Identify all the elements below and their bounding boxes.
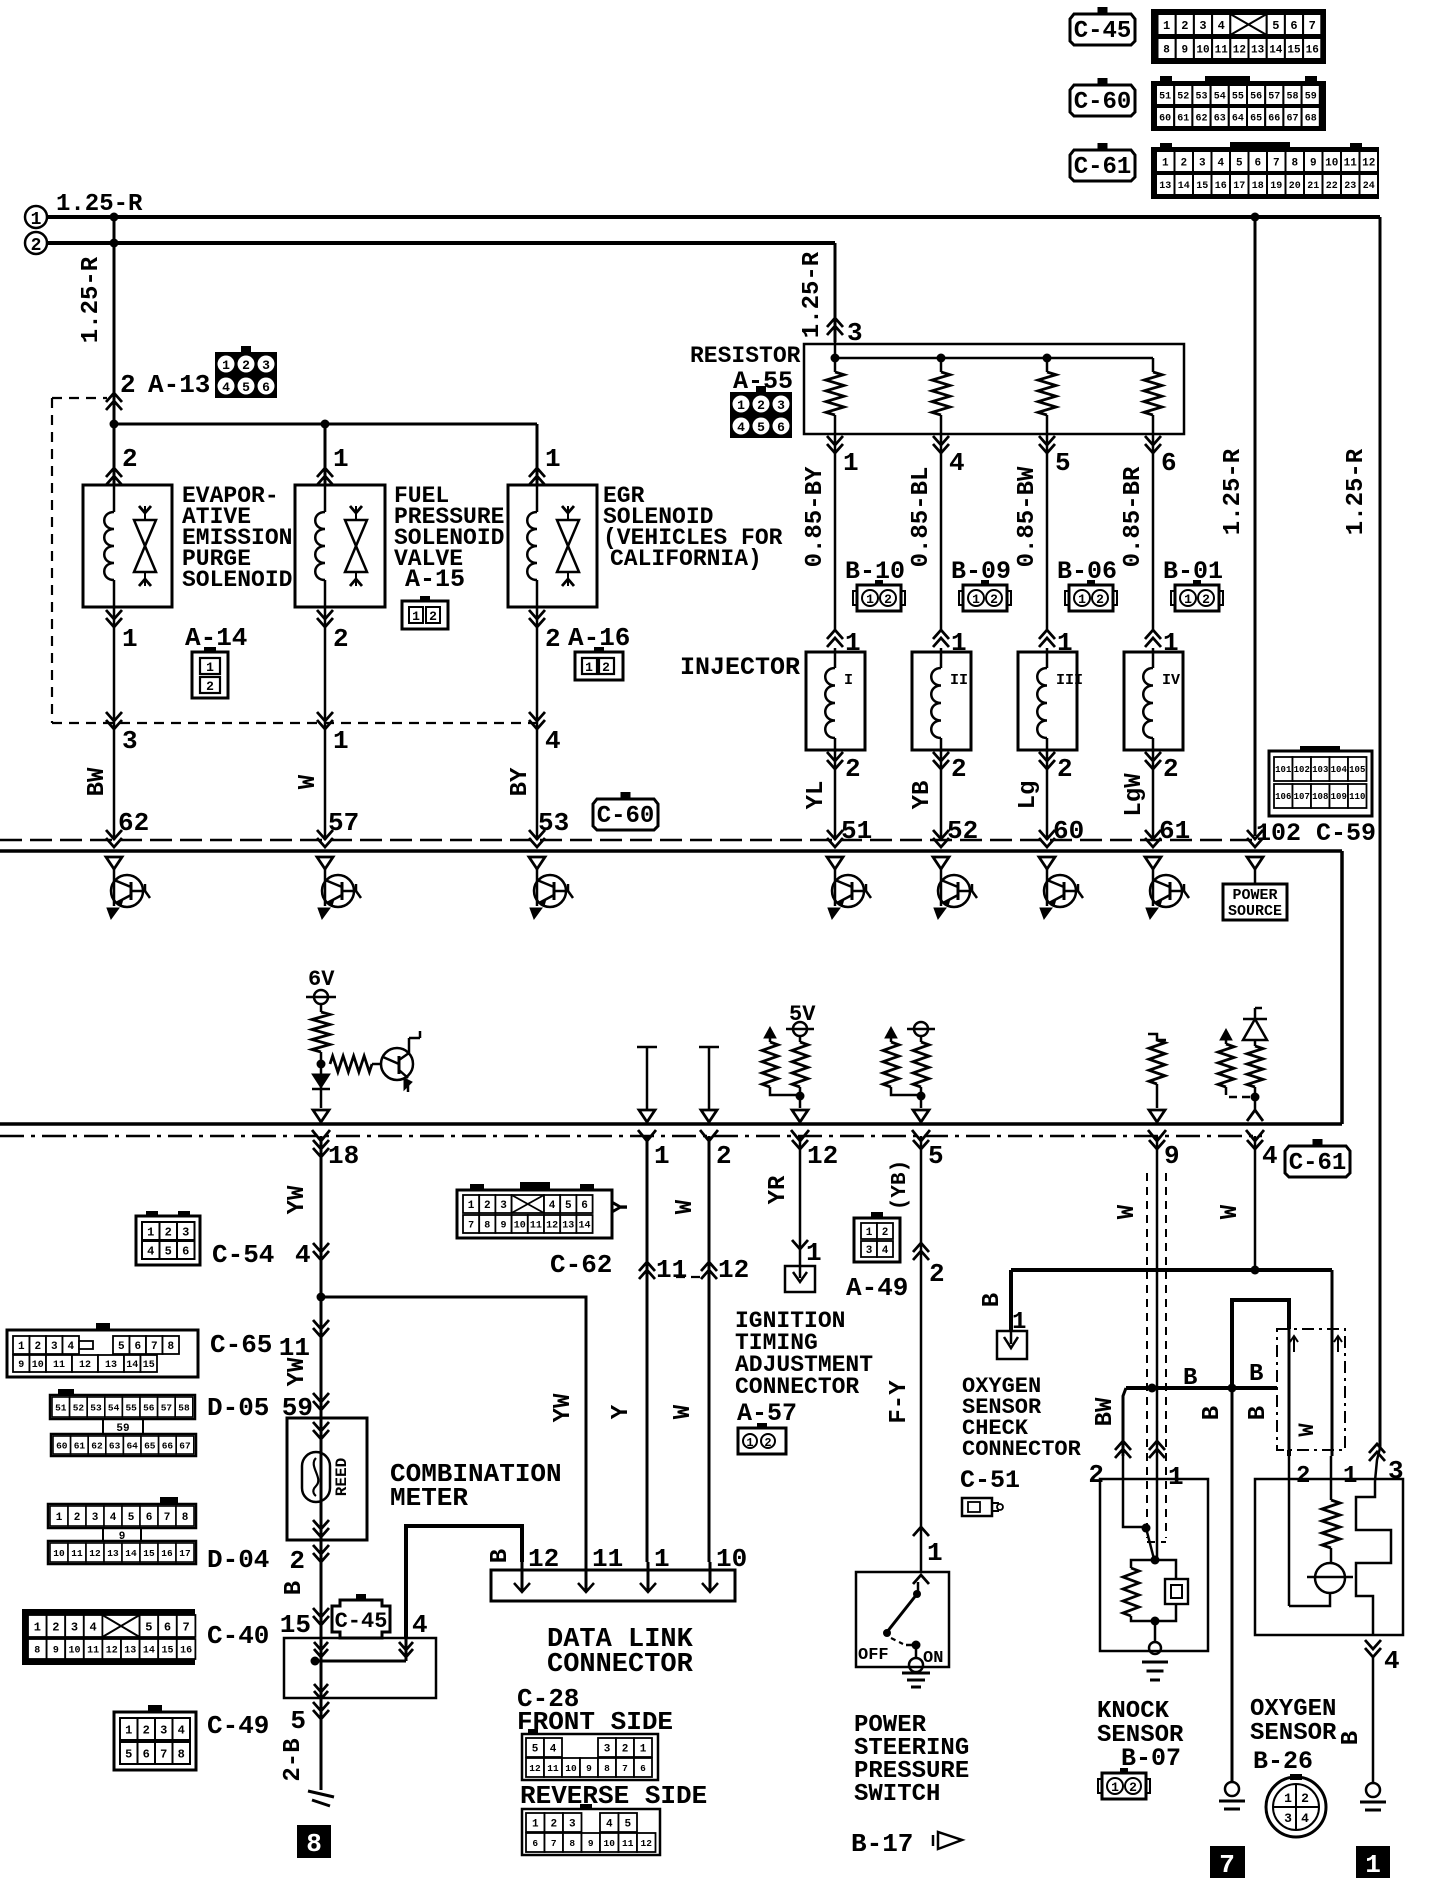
svg-text:YB: YB <box>909 781 936 810</box>
svg-text:4: 4 <box>1218 19 1225 33</box>
svg-text:4: 4 <box>1217 157 1224 169</box>
svg-text:3: 3 <box>866 1245 873 1257</box>
svg-text:5: 5 <box>928 1141 944 1171</box>
svg-text:105: 105 <box>1349 765 1365 775</box>
svg-text:1: 1 <box>972 592 980 607</box>
svg-text:W: W <box>670 1404 697 1419</box>
svg-text:1: 1 <box>1078 592 1086 607</box>
svg-text:2: 2 <box>882 1227 889 1239</box>
svg-text:2-B: 2-B <box>280 1738 307 1781</box>
svg-text:9: 9 <box>53 1646 59 1657</box>
svg-text:2: 2 <box>484 1200 491 1212</box>
svg-text:1: 1 <box>1343 1463 1357 1490</box>
svg-text:C-45: C-45 <box>335 1609 388 1634</box>
svg-text:61: 61 <box>1177 114 1189 125</box>
svg-text:0.85-BL: 0.85-BL <box>908 467 935 568</box>
svg-text:2: 2 <box>1088 1460 1104 1490</box>
svg-text:8: 8 <box>178 1747 185 1761</box>
svg-text:1.25-R: 1.25-R <box>1220 448 1247 535</box>
svg-text:2: 2 <box>990 592 998 607</box>
svg-text:3: 3 <box>51 1341 58 1353</box>
svg-text:55: 55 <box>125 1402 137 1413</box>
svg-text:103: 103 <box>1312 765 1328 775</box>
svg-text:I: I <box>844 672 853 689</box>
svg-text:63: 63 <box>1214 114 1226 125</box>
svg-text:12: 12 <box>89 1548 101 1559</box>
svg-text:2: 2 <box>1096 592 1104 607</box>
svg-text:6: 6 <box>164 1620 171 1634</box>
svg-text:18: 18 <box>1252 181 1264 192</box>
svg-text:2: 2 <box>951 754 967 784</box>
svg-text:C-59: C-59 <box>1316 819 1376 848</box>
svg-text:B-07: B-07 <box>1121 1744 1181 1773</box>
svg-text:6: 6 <box>182 1244 189 1258</box>
svg-text:1.25-R: 1.25-R <box>78 256 105 343</box>
svg-text:101: 101 <box>1275 765 1292 775</box>
svg-text:12: 12 <box>529 1763 541 1774</box>
svg-text:15: 15 <box>280 1610 311 1640</box>
svg-text:2: 2 <box>845 754 861 784</box>
svg-text:9: 9 <box>1164 1141 1180 1171</box>
svg-text:60: 60 <box>56 1440 68 1451</box>
svg-text:11: 11 <box>622 1838 634 1849</box>
svg-text:1: 1 <box>1184 592 1192 607</box>
svg-text:1: 1 <box>468 1200 475 1212</box>
svg-text:2: 2 <box>242 358 250 373</box>
svg-text:10: 10 <box>1196 44 1209 56</box>
svg-text:66: 66 <box>1268 114 1280 125</box>
svg-text:2: 2 <box>31 236 42 256</box>
svg-text:1: 1 <box>532 1818 539 1830</box>
svg-text:12: 12 <box>79 1360 91 1371</box>
svg-text:11: 11 <box>1344 157 1358 169</box>
svg-text:2: 2 <box>884 592 892 607</box>
svg-text:8: 8 <box>484 1221 490 1232</box>
svg-text:C-61: C-61 <box>1289 1150 1347 1177</box>
svg-text:2: 2 <box>165 1225 172 1239</box>
svg-text:7: 7 <box>164 1512 171 1524</box>
svg-text:B: B <box>1338 1731 1365 1745</box>
svg-text:1: 1 <box>927 1538 943 1568</box>
svg-text:61: 61 <box>74 1440 86 1451</box>
svg-text:1: 1 <box>56 1512 63 1524</box>
svg-text:1: 1 <box>654 1544 670 1574</box>
svg-text:3: 3 <box>569 1818 576 1830</box>
svg-text:1: 1 <box>206 660 214 675</box>
svg-text:15: 15 <box>143 1548 155 1559</box>
svg-text:Lg: Lg <box>1015 781 1042 810</box>
svg-text:C-51: C-51 <box>960 1466 1020 1495</box>
svg-text:2: 2 <box>289 1546 305 1576</box>
svg-text:3: 3 <box>1284 1811 1292 1826</box>
svg-text:INJECTOR: INJECTOR <box>680 653 800 682</box>
svg-text:12: 12 <box>1362 157 1375 169</box>
svg-text:C-40: C-40 <box>207 1621 269 1651</box>
svg-text:10: 10 <box>53 1548 65 1559</box>
svg-text:C-45: C-45 <box>1074 18 1132 45</box>
svg-text:12: 12 <box>718 1255 749 1285</box>
svg-text:8: 8 <box>1163 44 1170 56</box>
svg-text:6: 6 <box>1161 448 1177 478</box>
svg-text:2: 2 <box>1181 19 1188 33</box>
svg-text:4: 4 <box>1384 1646 1400 1676</box>
svg-text:19: 19 <box>1270 181 1282 192</box>
svg-text:1: 1 <box>333 726 349 756</box>
svg-text:104: 104 <box>1331 765 1348 775</box>
svg-text:LgW: LgW <box>1121 773 1148 817</box>
svg-text:8: 8 <box>306 1829 322 1859</box>
svg-text:15: 15 <box>143 1360 155 1371</box>
svg-text:4: 4 <box>1262 1141 1278 1171</box>
svg-text:54: 54 <box>108 1402 120 1413</box>
svg-text:4: 4 <box>1301 1811 1309 1826</box>
svg-text:2: 2 <box>122 444 138 474</box>
svg-text:13: 13 <box>105 1360 117 1371</box>
svg-text:KNOCK: KNOCK <box>1097 1698 1170 1725</box>
svg-text:11: 11 <box>71 1548 83 1559</box>
svg-text:12: 12 <box>807 1141 838 1171</box>
svg-text:5: 5 <box>165 1244 172 1258</box>
svg-text:62: 62 <box>118 808 149 838</box>
svg-text:7: 7 <box>151 1341 158 1353</box>
svg-text:12: 12 <box>641 1838 653 1849</box>
svg-text:1: 1 <box>585 660 593 675</box>
svg-text:YL: YL <box>803 781 830 810</box>
svg-text:6: 6 <box>146 1512 153 1524</box>
svg-text:12: 12 <box>546 1221 558 1232</box>
svg-text:4: 4 <box>89 1620 96 1634</box>
svg-text:6: 6 <box>143 1747 150 1761</box>
svg-text:C-54: C-54 <box>212 1240 274 1270</box>
svg-text:3: 3 <box>262 358 270 373</box>
svg-text:62: 62 <box>91 1440 103 1451</box>
svg-text:B: B <box>1245 1406 1272 1420</box>
svg-text:16: 16 <box>1306 44 1319 56</box>
svg-text:3: 3 <box>160 1723 167 1737</box>
svg-text:2: 2 <box>52 1620 59 1634</box>
svg-text:1.25-R: 1.25-R <box>799 251 826 338</box>
svg-text:CONNECTOR: CONNECTOR <box>962 1437 1082 1462</box>
svg-text:102: 102 <box>1256 819 1301 848</box>
svg-text:0.85-BR: 0.85-BR <box>1120 466 1147 567</box>
svg-text:1: 1 <box>222 358 230 373</box>
svg-text:2: 2 <box>143 1723 150 1737</box>
svg-text:3: 3 <box>1199 157 1206 169</box>
svg-text:51: 51 <box>1159 92 1171 103</box>
svg-text:68: 68 <box>1305 114 1317 125</box>
svg-text:2: 2 <box>602 660 610 675</box>
svg-text:14: 14 <box>126 1360 138 1371</box>
svg-text:11: 11 <box>1215 44 1229 56</box>
svg-text:11: 11 <box>87 1646 99 1657</box>
svg-text:4: 4 <box>737 420 745 435</box>
svg-text:58: 58 <box>178 1402 190 1413</box>
svg-text:A-13: A-13 <box>148 370 210 400</box>
svg-text:8: 8 <box>34 1646 40 1657</box>
svg-text:II: II <box>950 672 968 689</box>
svg-text:8: 8 <box>1291 157 1298 169</box>
svg-text:1: 1 <box>545 444 561 474</box>
svg-text:Y: Y <box>608 1404 635 1419</box>
svg-text:17: 17 <box>1233 181 1245 192</box>
svg-text:4: 4 <box>67 1341 74 1353</box>
svg-text:POWER: POWER <box>1232 887 1277 904</box>
svg-text:10: 10 <box>1325 157 1338 169</box>
svg-text:12: 12 <box>106 1646 118 1657</box>
svg-text:5: 5 <box>532 1743 539 1755</box>
svg-text:1: 1 <box>18 1341 25 1353</box>
svg-text:9: 9 <box>1181 44 1188 56</box>
svg-text:4: 4 <box>545 726 561 756</box>
svg-text:9: 9 <box>18 1360 24 1371</box>
svg-text:11: 11 <box>279 1333 310 1363</box>
svg-text:5: 5 <box>1055 448 1071 478</box>
svg-text:6: 6 <box>134 1341 141 1353</box>
svg-text:B: B <box>1183 1365 1197 1392</box>
svg-text:1: 1 <box>1168 1462 1184 1492</box>
svg-text:63: 63 <box>109 1440 121 1451</box>
svg-text:B: B <box>979 1293 1006 1307</box>
svg-text:52: 52 <box>1177 92 1189 103</box>
svg-text:A-57: A-57 <box>737 1399 797 1428</box>
svg-text:C-60: C-60 <box>1074 89 1132 116</box>
svg-text:2: 2 <box>764 1436 771 1450</box>
svg-text:6: 6 <box>532 1838 538 1849</box>
svg-text:12: 12 <box>528 1544 559 1574</box>
svg-text:3: 3 <box>122 726 138 756</box>
svg-text:7: 7 <box>182 1620 189 1634</box>
svg-text:1.25-R: 1.25-R <box>56 191 143 218</box>
svg-text:58: 58 <box>1286 92 1298 103</box>
svg-text:C-62: C-62 <box>550 1250 612 1280</box>
svg-text:1: 1 <box>654 1141 670 1171</box>
svg-text:C-60: C-60 <box>597 803 655 830</box>
svg-text:11: 11 <box>592 1544 623 1574</box>
svg-text:SOLENOID: SOLENOID <box>182 567 292 593</box>
svg-text:3: 3 <box>604 1743 611 1755</box>
svg-text:B-26: B-26 <box>1253 1747 1313 1776</box>
svg-text:5: 5 <box>125 1747 132 1761</box>
svg-text:C-61: C-61 <box>1074 154 1132 181</box>
svg-text:11: 11 <box>530 1221 542 1232</box>
svg-text:SENSOR: SENSOR <box>1250 1720 1337 1747</box>
svg-text:2: 2 <box>1301 1791 1309 1806</box>
svg-text:4: 4 <box>550 1743 557 1755</box>
svg-text:1: 1 <box>1163 19 1170 33</box>
svg-text:11: 11 <box>547 1763 559 1774</box>
svg-text:D-04: D-04 <box>207 1545 269 1575</box>
svg-text:6: 6 <box>640 1763 646 1774</box>
svg-text:54: 54 <box>1214 92 1226 103</box>
svg-text:13: 13 <box>1159 181 1171 192</box>
svg-text:2: 2 <box>1202 592 1210 607</box>
svg-text:OXYGEN: OXYGEN <box>1250 1696 1336 1723</box>
svg-text:9: 9 <box>500 1221 506 1232</box>
svg-text:55: 55 <box>1232 92 1244 103</box>
svg-text:F-Y: F-Y <box>886 1380 913 1424</box>
svg-text:67: 67 <box>179 1440 191 1451</box>
svg-text:1: 1 <box>843 448 859 478</box>
svg-text:24: 24 <box>1363 181 1375 192</box>
svg-text:5: 5 <box>128 1512 135 1524</box>
svg-text:CALIFORNIA): CALIFORNIA) <box>610 546 762 572</box>
svg-text:5: 5 <box>1236 157 1243 169</box>
svg-text:14: 14 <box>1178 181 1190 192</box>
svg-text:9: 9 <box>586 1763 592 1774</box>
svg-text:A-49: A-49 <box>846 1273 908 1303</box>
svg-text:FRONT SIDE: FRONT SIDE <box>517 1707 673 1737</box>
svg-text:3: 3 <box>71 1620 78 1634</box>
svg-text:14: 14 <box>125 1548 137 1559</box>
svg-text:BW: BW <box>84 767 111 796</box>
svg-text:4: 4 <box>295 1240 311 1270</box>
svg-text:51: 51 <box>841 816 872 846</box>
svg-text:9: 9 <box>1310 157 1317 169</box>
svg-text:A-15: A-15 <box>405 565 465 594</box>
svg-text:56: 56 <box>143 1402 155 1413</box>
svg-text:C-65: C-65 <box>210 1330 272 1360</box>
svg-text:6: 6 <box>1290 19 1297 33</box>
svg-text:2: 2 <box>757 398 765 413</box>
svg-text:3: 3 <box>182 1225 189 1239</box>
svg-text:10: 10 <box>32 1360 44 1371</box>
svg-text:2: 2 <box>550 1818 557 1830</box>
svg-text:METER: METER <box>390 1483 468 1513</box>
svg-text:8: 8 <box>182 1512 189 1524</box>
svg-text:B: B <box>1249 1361 1263 1388</box>
svg-text:4: 4 <box>412 1610 428 1640</box>
svg-text:13: 13 <box>107 1548 119 1559</box>
svg-text:1: 1 <box>1365 1850 1381 1880</box>
svg-text:18: 18 <box>328 1141 359 1171</box>
svg-text:13: 13 <box>562 1221 574 1232</box>
svg-text:4: 4 <box>178 1723 185 1737</box>
svg-text:5: 5 <box>1272 19 1279 33</box>
svg-text:2: 2 <box>1057 754 1073 784</box>
svg-text:4: 4 <box>549 1200 556 1212</box>
svg-text:5: 5 <box>624 1818 631 1830</box>
svg-text:C-49: C-49 <box>207 1711 269 1741</box>
svg-text:8: 8 <box>167 1341 174 1353</box>
svg-text:5: 5 <box>242 380 250 395</box>
svg-text:2: 2 <box>206 679 214 694</box>
svg-text:7: 7 <box>160 1747 167 1761</box>
svg-text:CONNECTOR: CONNECTOR <box>735 1374 859 1400</box>
svg-text:10: 10 <box>514 1221 526 1232</box>
svg-text:14: 14 <box>1269 44 1283 56</box>
svg-text:10: 10 <box>716 1544 747 1574</box>
svg-text:52: 52 <box>947 816 978 846</box>
svg-text:W: W <box>1114 1204 1141 1219</box>
svg-text:4: 4 <box>147 1244 154 1258</box>
svg-text:W: W <box>672 1199 699 1214</box>
svg-text:22: 22 <box>1326 181 1338 192</box>
svg-text:5: 5 <box>757 420 765 435</box>
svg-text:3: 3 <box>777 398 785 413</box>
svg-text:5: 5 <box>118 1341 125 1353</box>
svg-text:16: 16 <box>180 1646 192 1657</box>
svg-text:2: 2 <box>34 1341 41 1353</box>
svg-text:10: 10 <box>604 1838 616 1849</box>
svg-text:2: 2 <box>1163 754 1179 784</box>
svg-text:65: 65 <box>144 1440 156 1451</box>
svg-text:1: 1 <box>125 1723 132 1737</box>
svg-text:2: 2 <box>1296 1463 1310 1490</box>
svg-text:1: 1 <box>1284 1791 1292 1806</box>
svg-text:7: 7 <box>1309 19 1316 33</box>
svg-text:W: W <box>295 774 322 789</box>
svg-text:6: 6 <box>1254 157 1261 169</box>
svg-text:W: W <box>1295 1423 1320 1437</box>
svg-text:6: 6 <box>262 380 270 395</box>
svg-text:3: 3 <box>500 1200 507 1212</box>
svg-text:SWITCH: SWITCH <box>854 1781 940 1808</box>
svg-text:11: 11 <box>53 1360 65 1371</box>
svg-text:57: 57 <box>1268 92 1280 103</box>
svg-text:3: 3 <box>92 1512 99 1524</box>
svg-text:13: 13 <box>1251 44 1265 56</box>
svg-text:1: 1 <box>737 398 745 413</box>
svg-text:1: 1 <box>1111 1780 1119 1795</box>
svg-text:59: 59 <box>1305 92 1317 103</box>
svg-text:REVERSE SIDE: REVERSE SIDE <box>520 1781 707 1811</box>
svg-text:10: 10 <box>68 1646 80 1657</box>
svg-text:14: 14 <box>578 1221 590 1232</box>
svg-text:57: 57 <box>328 808 359 838</box>
svg-text:7: 7 <box>1219 1850 1235 1880</box>
svg-text:2: 2 <box>74 1512 81 1524</box>
svg-text:4: 4 <box>882 1245 889 1257</box>
svg-text:2: 2 <box>120 370 136 400</box>
svg-text:52: 52 <box>73 1402 85 1413</box>
svg-text:60: 60 <box>1159 114 1171 125</box>
svg-text:6V: 6V <box>308 967 335 992</box>
svg-text:60: 60 <box>1053 816 1084 846</box>
svg-text:1: 1 <box>412 609 420 624</box>
svg-text:1: 1 <box>806 1238 822 1268</box>
svg-text:REED: REED <box>333 1458 351 1496</box>
svg-text:3: 3 <box>1199 19 1206 33</box>
svg-text:CONNECTOR: CONNECTOR <box>547 1650 694 1680</box>
svg-text:2: 2 <box>429 609 437 624</box>
svg-text:SOURCE: SOURCE <box>1228 903 1282 920</box>
svg-text:102: 102 <box>1294 765 1310 775</box>
svg-text:III: III <box>1056 672 1083 689</box>
svg-text:YW: YW <box>284 1185 311 1214</box>
svg-text:10: 10 <box>565 1763 577 1774</box>
svg-text:2: 2 <box>622 1743 629 1755</box>
svg-text:107: 107 <box>1294 792 1310 802</box>
svg-text:3: 3 <box>1388 1456 1404 1486</box>
svg-text:OFF: OFF <box>858 1646 889 1665</box>
svg-text:2: 2 <box>1129 1780 1137 1795</box>
svg-text:14: 14 <box>143 1646 155 1657</box>
svg-text:IV: IV <box>1162 672 1180 689</box>
svg-text:6: 6 <box>777 420 785 435</box>
svg-text:108: 108 <box>1312 792 1328 802</box>
svg-text:1: 1 <box>640 1743 647 1755</box>
svg-text:RESISTOR: RESISTOR <box>690 343 801 369</box>
svg-text:13: 13 <box>124 1646 136 1657</box>
svg-text:12: 12 <box>1233 44 1246 56</box>
svg-text:7: 7 <box>551 1838 557 1849</box>
svg-text:2: 2 <box>333 624 349 654</box>
svg-text:BW: BW <box>1092 1397 1119 1426</box>
svg-text:15: 15 <box>1287 44 1301 56</box>
svg-text:109: 109 <box>1331 792 1347 802</box>
svg-text:YW: YW <box>550 1393 577 1422</box>
svg-text:1: 1 <box>866 592 874 607</box>
